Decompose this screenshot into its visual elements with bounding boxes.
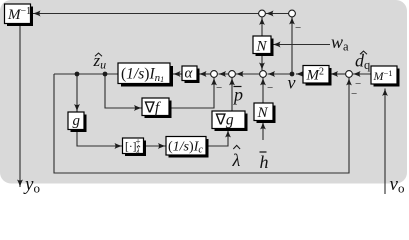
wire: zhat_u line from integrator to left edge	[54, 73, 118, 75]
node dot1 on zhat_u wire	[75, 72, 80, 77]
wire: circle4 output left into M^2	[331, 73, 347, 75]
box M^2	[303, 66, 332, 86]
svg-text:λ: λ	[232, 150, 241, 170]
box nabla-g	[212, 111, 248, 131]
svg-text:ν: ν	[288, 73, 296, 93]
wire: M^-1 right box output left into circle4	[353, 73, 371, 75]
box alpha	[182, 66, 200, 84]
wire: bracket box to (1/s)Ic	[144, 145, 166, 147]
wire: nu to circle3	[268, 73, 293, 75]
node dot2 on zhat_u wire	[103, 72, 108, 77]
summing circle4 (d_q)	[346, 71, 353, 78]
box g	[68, 112, 87, 132]
box N top	[253, 36, 274, 56]
wire: w_a input into N top box	[273, 44, 330, 46]
box M^-1 top-left	[5, 4, 34, 26]
box M^-1 right	[371, 66, 400, 87]
svg-text:λ: λ	[135, 147, 140, 156]
summing circle top-right	[289, 10, 296, 17]
svg-text:−: −	[295, 22, 301, 34]
wire: nabla-g output up into circle2 (p-bar)	[231, 78, 233, 111]
wire: branch down from dot2 then right into nabla-f	[105, 74, 142, 108]
wire: branch down from dot1 into g box	[76, 74, 78, 112]
box (1/s)I_n1	[118, 63, 173, 87]
wire: (1/s)Ic output right then up into nabla-g (lambda-hat)	[207, 130, 228, 146]
wire: circle3 to circle2	[236, 73, 260, 75]
svg-text:p: p	[232, 85, 243, 105]
node nu dot	[290, 72, 295, 77]
svg-text:−: −	[267, 82, 273, 94]
svg-text:h: h	[260, 152, 269, 172]
wire: top line from left circle to M^-1 box	[33, 13, 259, 15]
svg-text:−: −	[216, 82, 222, 94]
wire: M^2 output left into nu node	[296, 73, 303, 75]
svg-text:∇f: ∇f	[144, 100, 162, 117]
gray rounded background panel	[0, 0, 407, 184]
box (1/s)Ic	[166, 137, 209, 158]
svg-text:∇g: ∇g	[215, 112, 234, 129]
wire: v_o line up into M^-1 right box	[384, 89, 386, 195]
svg-text:α: α	[185, 66, 194, 82]
wire: circle1 to alpha box	[199, 73, 211, 75]
svg-text:N: N	[256, 39, 268, 55]
wire: nu branch up into right top circle	[291, 17, 293, 74]
svg-text:−: −	[351, 88, 357, 100]
box bracket-plus-lambda	[123, 137, 147, 157]
box nabla-f	[142, 98, 172, 118]
summing circle1	[211, 71, 218, 78]
wire: N top box down into circle3	[261, 54, 263, 71]
wire: feedback loop from zhat_u down-around to d_q summing circle	[54, 74, 349, 173]
wire: circle2 to circle1	[219, 73, 229, 75]
svg-text:N: N	[257, 105, 269, 121]
wire: N top box up into left circle	[261, 18, 263, 37]
svg-text:+: +	[136, 137, 141, 147]
summing circle top-left	[259, 10, 266, 17]
wire: g output down then right into bracket box	[77, 130, 122, 147]
wire: right top circle to left top circle	[266, 13, 289, 15]
wire: M^-1 (top-left) output down to y_o	[19, 26, 21, 188]
summing circle2	[229, 71, 236, 78]
wire: h-bar input up into N bottom box	[262, 122, 264, 140]
wire: N bottom box up into circle3	[262, 78, 264, 103]
box N bottom	[254, 103, 276, 123]
summing circle3	[260, 71, 267, 78]
wire: nabla-f output right then up into circle1	[171, 78, 214, 108]
wire: alpha to integrator box	[173, 73, 182, 75]
svg-text:(1/s)Ic: (1/s)Ic	[168, 140, 203, 156]
svg-text:g: g	[73, 113, 81, 129]
